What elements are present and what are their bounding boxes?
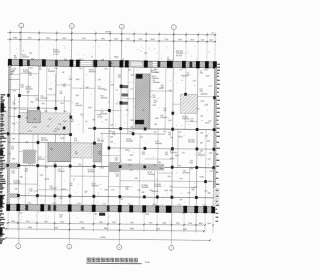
svg-text:L47: L47 <box>140 137 143 139</box>
svg-text:300x650: 300x650 <box>89 71 96 73</box>
svg-text:200: 200 <box>25 171 28 173</box>
bottom dimension line 2 <box>6 227 204 231</box>
hatched slab patch left <box>19 112 70 134</box>
svg-text:2-8: 2-8 <box>182 213 185 215</box>
svg-text:250x500: 250x500 <box>152 78 159 80</box>
svg-text:DT: DT <box>131 89 134 91</box>
svg-text:KZ12: KZ12 <box>205 123 209 125</box>
svg-text:GZ14: GZ14 <box>170 158 175 160</box>
svg-text:220: 220 <box>190 163 193 165</box>
svg-text:2700: 2700 <box>80 222 84 224</box>
svg-text:PTB1: PTB1 <box>55 129 60 131</box>
svg-text:2400: 2400 <box>104 68 108 70</box>
svg-text:L41: L41 <box>110 125 113 127</box>
svg-text:220: 220 <box>84 191 87 193</box>
svg-text:240: 240 <box>200 91 203 93</box>
svg-text:180: 180 <box>154 124 157 126</box>
svg-text:200x400: 200x400 <box>40 98 47 100</box>
far-left hatched patch <box>1 111 8 134</box>
svg-text:GZ10: GZ10 <box>60 138 65 140</box>
top overall dimension line <box>7 30 216 35</box>
svg-text:KZ3: KZ3 <box>27 92 30 94</box>
svg-text:h=100: h=100 <box>97 117 102 119</box>
svg-text:300x700: 300x700 <box>41 140 48 142</box>
left margin annotation column <box>0 94 7 244</box>
svg-text:200: 200 <box>70 121 73 123</box>
svg-text:220: 220 <box>63 86 66 88</box>
svg-text:1200: 1200 <box>52 203 56 205</box>
svg-text:240: 240 <box>116 176 119 178</box>
svg-text:240: 240 <box>69 185 72 187</box>
svg-text:180: 180 <box>75 153 78 155</box>
svg-text:2100: 2100 <box>28 130 32 132</box>
svg-text:2620: 2620 <box>151 39 155 41</box>
hatched seg bottom-left wall <box>7 193 19 198</box>
svg-text:GZ7: GZ7 <box>104 89 108 91</box>
svg-text:200: 200 <box>10 74 13 76</box>
svg-text:2900: 2900 <box>149 222 153 224</box>
svg-text:220: 220 <box>207 141 210 143</box>
svg-text:240: 240 <box>64 59 67 61</box>
svg-text:L49: L49 <box>130 170 133 172</box>
svg-text:240: 240 <box>169 90 172 92</box>
dark hatched rect x27-40 <box>27 111 40 123</box>
svg-text:220: 220 <box>12 173 15 175</box>
svg-text:2780: 2780 <box>101 38 105 40</box>
svg-text:1200: 1200 <box>127 204 131 206</box>
svg-text:240x400: 240x400 <box>201 94 208 96</box>
top segment dimension line <box>7 37 216 41</box>
svg-text:L32: L32 <box>110 141 113 143</box>
svg-text:1500: 1500 <box>177 204 181 206</box>
svg-text:300x550: 300x550 <box>151 191 158 193</box>
svg-text:1200: 1200 <box>53 164 57 166</box>
svg-text:220: 220 <box>58 124 61 126</box>
svg-text:240x400: 240x400 <box>100 114 107 116</box>
svg-text:KZ11: KZ11 <box>128 160 132 162</box>
svg-text:GZ4: GZ4 <box>104 189 108 191</box>
drawing title <box>87 258 137 262</box>
left exterior wall <box>7 59 11 210</box>
svg-text:150: 150 <box>19 212 22 214</box>
svg-text:GZ5: GZ5 <box>49 89 53 91</box>
svg-text:GZ1: GZ1 <box>130 120 134 122</box>
svg-text:8660: 8660 <box>183 229 187 231</box>
svg-text:L67: L67 <box>8 153 11 155</box>
svg-text:GZ17: GZ17 <box>79 59 84 61</box>
interior secondary verticals <box>13 59 207 206</box>
svg-text:L22a: L22a <box>200 101 204 103</box>
svg-text:240: 240 <box>165 154 168 156</box>
svg-text:2700: 2700 <box>164 39 168 41</box>
interior columns <box>6 91 216 199</box>
svg-text:2-2 1.2: 2-2 1.2 <box>53 54 59 56</box>
svg-text:2620: 2620 <box>162 223 166 225</box>
svg-text:2780: 2780 <box>138 39 142 41</box>
svg-text:JD1: JD1 <box>59 198 62 200</box>
svg-text:220: 220 <box>160 168 163 170</box>
svg-text:220: 220 <box>11 149 14 151</box>
svg-text:180: 180 <box>158 162 161 164</box>
svg-text:L43: L43 <box>168 120 171 122</box>
svg-text:GZ16: GZ16 <box>45 179 50 181</box>
bottom exterior wall band <box>6 204 215 214</box>
svg-text:T1: T1 <box>116 90 118 92</box>
svg-text:L44: L44 <box>193 80 196 82</box>
svg-text:2400: 2400 <box>77 203 81 205</box>
svg-text:1800: 1800 <box>199 223 203 225</box>
svg-text:8660: 8660 <box>28 227 32 229</box>
svg-text:L74: L74 <box>196 108 199 110</box>
svg-text:900: 900 <box>179 132 182 134</box>
svg-text:GL2: GL2 <box>60 103 63 105</box>
svg-text:GZ3: GZ3 <box>204 105 208 107</box>
svg-text:GZ9: GZ9 <box>206 76 210 78</box>
svg-text:240: 240 <box>45 167 48 169</box>
svg-text:8660: 8660 <box>156 229 160 231</box>
svg-text:L57: L57 <box>182 152 185 154</box>
bottom dimension line 3 (overall) <box>6 236 210 240</box>
scan noise speckle <box>8 44 216 226</box>
svg-text:250x450: 250x450 <box>13 183 20 185</box>
svg-text:2-14: 2-14 <box>119 199 123 201</box>
svg-text:250: 250 <box>74 140 77 142</box>
svg-text:240: 240 <box>135 178 138 180</box>
svg-text:GZ1: GZ1 <box>75 95 79 97</box>
svg-text:2780: 2780 <box>99 222 103 224</box>
svg-text:2900: 2900 <box>46 38 50 40</box>
svg-text:GL3: GL3 <box>40 175 43 177</box>
svg-text:240: 240 <box>12 138 15 140</box>
svg-text:TZ1: TZ1 <box>128 70 131 72</box>
svg-text:240: 240 <box>14 58 17 60</box>
svg-text:2620: 2620 <box>28 38 32 40</box>
svg-text:240: 240 <box>112 134 115 136</box>
svg-text:240: 240 <box>111 85 114 87</box>
svg-text:220: 220 <box>142 154 145 156</box>
svg-text:2700: 2700 <box>82 38 86 40</box>
svg-text:2900: 2900 <box>178 39 182 41</box>
svg-text:GZ2: GZ2 <box>12 158 16 160</box>
stair core hatched strip <box>135 74 150 129</box>
interior horizontal beams <box>7 73 216 198</box>
svg-text:KZ2: KZ2 <box>69 79 72 81</box>
svg-text:250x500: 250x500 <box>170 152 177 154</box>
top exterior wall band <box>8 59 217 69</box>
svg-text:GZ2: GZ2 <box>175 155 179 157</box>
svg-text:220: 220 <box>110 137 113 139</box>
svg-text:900: 900 <box>103 203 106 205</box>
hatched patch bottom-right <box>213 188 219 207</box>
svg-text:240: 240 <box>141 192 144 194</box>
hatched rect mid-left dark <box>48 143 71 162</box>
svg-text:200: 200 <box>118 77 121 79</box>
svg-text:240: 240 <box>168 176 171 178</box>
svg-text:TB1: TB1 <box>50 149 53 151</box>
svg-text:2500: 2500 <box>201 40 205 42</box>
svg-text:GZ6: GZ6 <box>76 79 80 81</box>
svg-text:250x600: 250x600 <box>141 187 148 189</box>
hatched patch right x180 <box>180 94 197 113</box>
svg-text:1500: 1500 <box>28 163 32 165</box>
svg-text:GZ13: GZ13 <box>178 136 183 138</box>
bottom grid stubs <box>8 210 213 245</box>
hatched rect mid light <box>71 143 92 158</box>
svg-text:150: 150 <box>48 119 51 121</box>
svg-text:1600: 1600 <box>207 223 211 225</box>
svg-text:200: 200 <box>29 75 32 77</box>
svg-text:300x600: 300x600 <box>91 185 98 187</box>
svg-text:L68: L68 <box>101 59 104 61</box>
svg-text:2620: 2620 <box>112 222 116 224</box>
svg-text:L39: L39 <box>98 79 101 81</box>
svg-text:47300: 47300 <box>100 237 105 239</box>
svg-text:8660: 8660 <box>54 227 58 229</box>
svg-text:220: 220 <box>29 191 32 193</box>
svg-text:L62: L62 <box>194 186 197 188</box>
svg-text:L4: L4 <box>91 56 93 58</box>
svg-text:TL1: TL1 <box>144 53 147 55</box>
svg-text:240: 240 <box>170 137 173 139</box>
hatched patch x110 y162 <box>109 162 120 172</box>
svg-text:220: 220 <box>80 114 83 116</box>
svg-text:200: 200 <box>152 97 155 99</box>
svg-text:JD2: JD2 <box>94 214 97 216</box>
svg-text:250x500: 250x500 <box>148 174 155 176</box>
svg-text:2400: 2400 <box>29 67 33 69</box>
svg-text:240: 240 <box>20 176 23 178</box>
svg-text:2400: 2400 <box>188 223 192 225</box>
svg-text:KZ2: KZ2 <box>130 155 133 157</box>
beam label text clusters <box>7 49 214 221</box>
svg-text:240: 240 <box>92 119 95 121</box>
svg-text:250x500: 250x500 <box>188 142 195 144</box>
svg-text:KZ8: KZ8 <box>190 168 193 170</box>
svg-text:240: 240 <box>31 59 34 61</box>
svg-text:2F-16F: 2F-16F <box>176 55 183 57</box>
svg-text:1800: 1800 <box>152 204 156 206</box>
svg-text:L69: L69 <box>121 60 124 62</box>
right margin annotations <box>215 64 220 222</box>
svg-text:GZ18: GZ18 <box>159 88 164 90</box>
svg-text:PTB: PTB <box>152 105 156 107</box>
svg-text:240x450: 240x450 <box>49 188 56 190</box>
svg-text:240: 240 <box>14 188 17 190</box>
svg-text:200: 200 <box>115 160 118 162</box>
svg-text:200: 200 <box>167 59 170 61</box>
svg-text:240: 240 <box>12 104 15 106</box>
svg-text:GZ11: GZ11 <box>100 167 104 169</box>
svg-text:L60: L60 <box>180 178 183 180</box>
svg-text:300x650: 300x650 <box>88 171 95 173</box>
top grid bubbles <box>19 23 177 62</box>
svg-text:200x500: 200x500 <box>97 141 104 143</box>
svg-text:L53: L53 <box>187 192 190 194</box>
svg-text:240: 240 <box>163 110 166 112</box>
svg-text:KZ5: KZ5 <box>131 75 134 77</box>
svg-text:220: 220 <box>200 116 203 118</box>
svg-text:L36: L36 <box>13 108 16 110</box>
svg-text:L28: L28 <box>137 190 140 192</box>
svg-text:900: 900 <box>178 165 181 167</box>
svg-text:1200: 1200 <box>154 69 158 71</box>
svg-text:1:100: 1:100 <box>145 262 151 264</box>
svg-text:220: 220 <box>35 100 38 102</box>
svg-text:220: 220 <box>153 102 156 104</box>
svg-text:KZ10: KZ10 <box>200 177 204 179</box>
svg-text:220: 220 <box>21 87 24 89</box>
svg-text:250x550: 250x550 <box>154 186 161 188</box>
svg-text:GBZ1: GBZ1 <box>114 57 119 59</box>
svg-text:250x600: 250x600 <box>126 141 133 143</box>
svg-text:2400: 2400 <box>209 40 213 42</box>
svg-text:2620: 2620 <box>114 39 118 41</box>
svg-text:200x450: 200x450 <box>75 105 82 107</box>
svg-text:200x450: 200x450 <box>183 173 190 175</box>
svg-text:240: 240 <box>39 69 42 71</box>
svg-text:L56: L56 <box>200 133 203 135</box>
svg-text:220: 220 <box>98 154 101 156</box>
svg-text:L50: L50 <box>210 171 213 173</box>
elevator door blocks <box>120 85 129 105</box>
svg-text:L71: L71 <box>209 86 212 88</box>
svg-text:220x400: 220x400 <box>58 171 65 173</box>
svg-text:2620: 2620 <box>60 221 64 223</box>
svg-text:L52: L52 <box>111 190 114 192</box>
svg-text:2400: 2400 <box>78 164 82 166</box>
svg-text:240x400: 240x400 <box>181 75 188 77</box>
svg-text:240: 240 <box>63 121 66 123</box>
svg-text:JD5: JD5 <box>63 111 66 113</box>
svg-text:1800: 1800 <box>27 202 31 204</box>
svg-text:KZ1: KZ1 <box>13 90 16 92</box>
svg-text:240: 240 <box>200 73 203 75</box>
svg-text:GZ8: GZ8 <box>156 72 160 74</box>
bottom dimension ticks <box>5 221 214 241</box>
svg-text:L46: L46 <box>25 142 28 144</box>
svg-text:240: 240 <box>44 111 47 113</box>
svg-text:L3a: L3a <box>29 53 32 55</box>
svg-text:200x400: 200x400 <box>48 71 55 73</box>
interior main grid verticals <box>18 65 198 206</box>
hatched band mid-right <box>120 163 164 170</box>
svg-text:XL1: XL1 <box>111 63 114 65</box>
svg-text:240: 240 <box>168 134 171 136</box>
svg-text:2620: 2620 <box>190 39 194 41</box>
svg-text:2700: 2700 <box>126 39 130 41</box>
svg-text:GZ12: GZ12 <box>61 189 66 191</box>
svg-text:1800: 1800 <box>204 69 208 71</box>
hatched patch left low <box>23 150 36 164</box>
svg-text:8660: 8660 <box>130 228 134 230</box>
bottom grid bubbles <box>16 244 174 251</box>
svg-text:240: 240 <box>200 151 203 153</box>
svg-text:900: 900 <box>153 165 156 167</box>
svg-text:8660: 8660 <box>81 228 85 230</box>
svg-text:250x450: 250x450 <box>26 89 33 91</box>
svg-text:L33: L33 <box>205 136 208 138</box>
svg-text:JD3: JD3 <box>179 199 182 201</box>
svg-text:250: 250 <box>41 103 44 105</box>
svg-text:2380: 2380 <box>13 37 17 39</box>
svg-text:240: 240 <box>125 110 128 112</box>
svg-text:220x400: 220x400 <box>160 117 167 119</box>
hatched shaft x93-101 <box>93 143 101 162</box>
svg-text:300x550: 300x550 <box>38 159 45 161</box>
svg-text:TB2: TB2 <box>169 190 172 192</box>
svg-text:KZ7: KZ7 <box>200 143 203 145</box>
svg-text:240: 240 <box>60 93 63 95</box>
svg-text:240: 240 <box>190 121 193 123</box>
grid stub lines above band <box>10 42 215 62</box>
svg-text:1500: 1500 <box>108 131 112 133</box>
svg-text:1200: 1200 <box>179 69 183 71</box>
svg-text:8660: 8660 <box>104 228 108 230</box>
hatched wall seg left y166 <box>0 163 20 169</box>
svg-text:2400: 2400 <box>202 204 206 206</box>
svg-text:180: 180 <box>207 193 210 195</box>
svg-text:JD4: JD4 <box>33 119 36 121</box>
svg-text:2400: 2400 <box>128 165 132 167</box>
svg-text:150: 150 <box>59 217 62 219</box>
svg-text:300x500: 300x500 <box>100 98 107 100</box>
svg-text:KZ4: KZ4 <box>88 107 91 109</box>
svg-text:2600: 2600 <box>11 221 15 223</box>
svg-text:h110: h110 <box>33 127 37 129</box>
svg-text:D1: D1 <box>47 126 49 128</box>
svg-text:150: 150 <box>211 32 214 34</box>
small dimension texts along interior <box>27 67 207 206</box>
svg-text:1200: 1200 <box>54 68 58 70</box>
svg-text:240: 240 <box>86 87 89 89</box>
svg-text:240: 240 <box>191 190 194 192</box>
svg-text:L58: L58 <box>209 153 212 155</box>
svg-text:240x400: 240x400 <box>155 143 162 145</box>
svg-text:250x500: 250x500 <box>22 57 29 59</box>
svg-text:180: 180 <box>30 102 33 104</box>
svg-text:GZ15: GZ15 <box>125 150 130 152</box>
svg-text:KZ6: KZ6 <box>155 118 158 120</box>
right exterior wall <box>213 62 217 213</box>
svg-text:D2: D2 <box>85 121 87 123</box>
svg-text:1200: 1200 <box>128 131 132 133</box>
bottom dimension line 1 <box>6 221 211 225</box>
svg-text:2700: 2700 <box>26 221 30 223</box>
svg-text:1800: 1800 <box>53 131 57 133</box>
svg-text:2400: 2400 <box>79 68 83 70</box>
svg-text:2500: 2500 <box>176 223 180 225</box>
svg-text:200x400: 200x400 <box>153 82 160 84</box>
top dimension ticks <box>9 30 216 44</box>
svg-text:250x450: 250x450 <box>182 119 189 121</box>
svg-text:2780: 2780 <box>44 221 48 223</box>
svg-text:PB1: PB1 <box>12 123 15 125</box>
svg-text:2600: 2600 <box>62 38 66 40</box>
svg-text:2700: 2700 <box>130 222 134 224</box>
svg-text:D3: D3 <box>105 119 107 121</box>
svg-text:150: 150 <box>25 118 28 120</box>
svg-text:T2: T2 <box>115 104 117 106</box>
svg-text:1450: 1450 <box>145 214 149 216</box>
svg-text:GZ: GZ <box>62 72 65 74</box>
svg-text:220: 220 <box>169 186 172 188</box>
svg-text:180: 180 <box>130 127 133 129</box>
